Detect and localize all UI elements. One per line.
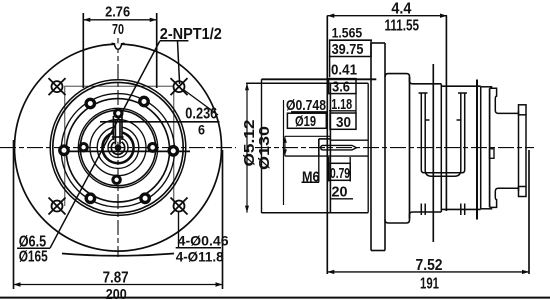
wire: dim 191 line bbox=[327, 270, 529, 274]
svg-text:70: 70 bbox=[112, 21, 124, 38]
svg-text:7.87: 7.87 bbox=[103, 270, 129, 287]
svg-text:6: 6 bbox=[198, 123, 205, 138]
node: motor rear face bbox=[489, 88, 491, 207]
node: pilot boss circle D130 inner bbox=[53, 82, 183, 212]
wire: dim 70 extension right bbox=[156, 13, 158, 88]
node: M6 tapped hole bbox=[321, 145, 357, 150]
wire: D19 dim line vertical bbox=[283, 136, 331, 156]
node: box 3.6 bbox=[329, 79, 356, 94]
wire: label column left rule bbox=[329, 57, 331, 78]
node: motor adapter bottom bbox=[441, 208, 480, 210]
wire: face extension line bbox=[326, 16, 328, 275]
wire: D6.5 divider line bbox=[17, 247, 50, 249]
node: housing joint edge bbox=[440, 84, 442, 212]
node: port circle band inner bbox=[66, 99, 169, 202]
wire: dim 70 extension left bbox=[82, 13, 84, 88]
svg-text:2-NPT1/2: 2-NPT1/2 bbox=[160, 26, 222, 43]
svg-text:4.4: 4.4 bbox=[391, 0, 411, 17]
wire: dim 70 line bbox=[83, 18, 156, 22]
svg-text:4-Ø11.8: 4-Ø11.8 bbox=[176, 248, 224, 264]
node: internal section line bbox=[432, 64, 434, 242]
node: square body outline behind flange bbox=[65, 86, 174, 206]
node: port circle band outer bbox=[61, 94, 174, 207]
svg-text:30: 30 bbox=[336, 114, 351, 131]
node: four inner bolt holes white masks bbox=[80, 109, 157, 184]
node: pilot boss top bbox=[246, 82, 368, 84]
wire: horizontal centerline front view bbox=[0, 147, 236, 149]
wire: 4-D0.46 underline bbox=[176, 247, 221, 249]
node: shaft stub bbox=[319, 139, 331, 156]
svg-text:Ø19: Ø19 bbox=[295, 113, 316, 130]
node: pilot boss face bbox=[329, 83, 331, 212]
wire: leader corner hole to 0.236 bbox=[184, 90, 218, 115]
wire: D130 dim line vertical bbox=[245, 83, 284, 212]
wire: M6 underline bbox=[302, 181, 320, 183]
wire: dim 191 extension right bbox=[528, 150, 530, 274]
wire: leader NPT short bbox=[178, 41, 180, 84]
node: shaft circle D19 bbox=[108, 138, 128, 158]
svg-text:Ø130: Ø130 bbox=[256, 126, 273, 170]
node: shaft end detail at rear face bbox=[490, 149, 495, 159]
node: motor rear bell bottom bbox=[490, 188, 519, 207]
node: mounting flange plate D200 bbox=[371, 43, 385, 251]
wire: 0.79 extension verticals bbox=[328, 157, 330, 182]
node: motor rear bell top bbox=[490, 88, 519, 113]
wire: keyway reference line 0.236 bbox=[100, 121, 220, 123]
node: boss rear edge bbox=[367, 83, 369, 212]
svg-text:1.565: 1.565 bbox=[332, 25, 363, 41]
node: corner hole top-right with cross bbox=[171, 78, 188, 95]
node: corner hole bottom-left with cross bbox=[49, 198, 66, 215]
wire: label column right rule bbox=[355, 94, 357, 114]
wire: dim 111.55 extension / rear edge bbox=[445, 16, 447, 212]
node: bottom flat arc of plate bbox=[62, 254, 174, 256]
node: corner hole bottom-right with cross bbox=[171, 198, 188, 215]
wire: leader NPT long bbox=[50, 41, 160, 248]
node: keyway slot bbox=[113, 120, 122, 142]
node: box D19 bbox=[287, 113, 326, 128]
node: gear housing front section bbox=[385, 74, 441, 223]
wire: NPT label underline bbox=[160, 40, 189, 42]
svg-text:0.41: 0.41 bbox=[331, 61, 357, 78]
svg-text:Ø165: Ø165 bbox=[19, 249, 48, 266]
wire: 1.565 underline bbox=[330, 39, 372, 41]
wire: D0.748 underline bbox=[291, 111, 327, 113]
wire: dim 200 extension right bbox=[222, 150, 224, 289]
node: internal bolt stubs bottom bbox=[421, 204, 464, 216]
svg-text:4-Ø0.46: 4-Ø0.46 bbox=[178, 232, 229, 248]
svg-text:0.236: 0.236 bbox=[185, 106, 217, 123]
node: corner hole top-left with cross bbox=[49, 78, 66, 95]
node: center hole bbox=[115, 144, 122, 151]
node: box 0.79 bbox=[329, 163, 351, 180]
svg-text:3.6: 3.6 bbox=[332, 79, 350, 96]
svg-text:20: 20 bbox=[332, 184, 348, 201]
node: motor front cap bbox=[481, 87, 493, 209]
node: pilot boss bottom bbox=[262, 212, 369, 214]
svg-text:7.52: 7.52 bbox=[416, 257, 443, 274]
wire: rotated label divider bbox=[261, 79, 263, 213]
wire: dim 111.55 line bbox=[327, 14, 447, 18]
svg-text:0.79: 0.79 bbox=[330, 166, 350, 182]
wire: 1.18 underline bbox=[329, 110, 356, 112]
wire: 20 underline bbox=[331, 198, 353, 200]
wire: dim 200 extension left bbox=[13, 140, 15, 289]
node: bolt boss circle R38 bbox=[80, 110, 155, 185]
wire: M6 leader bbox=[318, 156, 320, 182]
node: six port holes white masks bbox=[60, 97, 178, 203]
node: inner hub circle R28 bbox=[90, 120, 146, 176]
wire: secondary horizontal line front view bbox=[62, 150, 190, 152]
node: notch at top of outer circle bbox=[112, 43, 125, 49]
node: box 30 bbox=[330, 113, 356, 129]
wire: dim 200 line bbox=[14, 282, 223, 286]
node: inner hub circle R21 bbox=[97, 127, 139, 169]
wire: bottom border line bbox=[0, 297, 550, 299]
node: six port holes ring bbox=[60, 97, 178, 202]
wire: leader 4-D0.46 bbox=[178, 212, 180, 248]
svg-text:191: 191 bbox=[420, 276, 439, 293]
wire: horizontal centerline side view bbox=[255, 147, 534, 149]
node: four inner bolt holes ring bbox=[80, 110, 157, 184]
node: box 39.75 bbox=[330, 40, 371, 56]
svg-text:111.55: 111.55 bbox=[385, 18, 420, 35]
node: flange outer circle D200 bbox=[15, 44, 222, 251]
node: housing section joint wall bbox=[409, 77, 411, 219]
wire: 0.41 underline long bbox=[262, 78, 377, 80]
node: pilot boss circle D130 outer bbox=[50, 80, 186, 216]
wire: vertical centerline front view bbox=[117, 38, 119, 257]
node: internal cavity U outline bbox=[419, 93, 468, 176]
node: coupling circle D30 thick bbox=[102, 132, 133, 163]
node: rear cylinder bbox=[519, 105, 527, 197]
node: motor adapter top bbox=[441, 85, 480, 87]
node: shaft hidden lines into housing bbox=[285, 140, 368, 156]
node: tap circle M6 bbox=[111, 141, 124, 154]
svg-text:39.75: 39.75 bbox=[332, 41, 364, 58]
node: motor flange ring bbox=[476, 80, 478, 220]
svg-text:2.76: 2.76 bbox=[105, 4, 130, 21]
node: bolt boss circle R40 bbox=[78, 108, 157, 187]
